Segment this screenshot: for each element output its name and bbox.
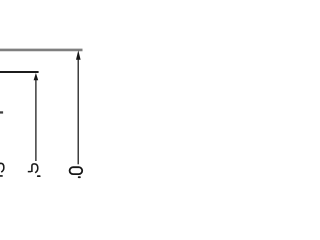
black reference line (lower) — [0, 71, 39, 73]
small dash at left edge (clipped label fragment) — [0, 111, 3, 113]
rotated tick label fragment at left edge (partial digit) — [0, 163, 4, 172]
decimal point of 0.5 label — [37, 175, 41, 177]
left annotation arrow (head) — [34, 73, 39, 80]
background — [0, 0, 100, 180]
right annotation arrow (shaft) — [77, 59, 79, 164]
gray reference line (upper) — [0, 49, 83, 52]
rotated tick label digit 5 — [28, 164, 38, 173]
decimal point of 1.0 label — [78, 176, 81, 178]
decimal point of left clipped label — [0, 175, 3, 177]
right annotation arrow (head) — [76, 50, 81, 60]
left annotation arrow (shaft) — [35, 80, 37, 162]
rotated tick label digit 0 — [70, 167, 83, 174]
